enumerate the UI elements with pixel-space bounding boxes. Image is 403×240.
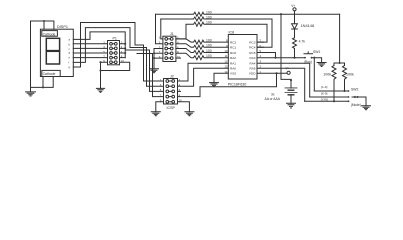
svg-text:10: 10 [179,99,183,103]
svg-text:100: 100 [206,54,212,58]
ground below J2 left [151,112,160,116]
node bottom-cathode junction [42,86,44,88]
wire segment f wrap [73,28,163,87]
svg-text:SW1: SW1 [313,50,320,54]
J2 pin circles [166,80,175,104]
svg-text:14: 14 [224,70,228,74]
ground below P1 [96,88,104,92]
wire segment g wrap [73,23,163,82]
svg-text:100: 100 [206,39,212,43]
wire RA5 to mode line [257,68,305,101]
labels segment pins [69,38,71,69]
svg-text:f: f [69,60,70,64]
node RC5 link [257,53,276,58]
wire J2 pin9 to ground [156,102,164,112]
ground below display [26,87,36,96]
power terminal V+ top [293,8,296,11]
switch SW1 [304,52,322,63]
svg-text:[Y/N]: [Y/N] [321,98,328,102]
node top-cathode junction [43,20,45,22]
svg-text:PIC16F630: PIC16F630 [228,82,247,86]
diode D1 1N4148 [292,24,298,38]
wire RA3 row [257,57,305,59]
display DISP1 body [40,29,73,76]
switch SW2 lever [352,97,366,106]
svg-text:b: b [69,43,71,47]
svg-text:1N4148: 1N4148 [301,23,315,28]
svg-text:SW2: SW2 [351,87,358,91]
svg-text:RA1: RA1 [230,62,236,66]
wire row2 left drop to J1 pin1 [161,19,163,39]
wire J1 pins 5,7,9 to ground bus [154,49,163,69]
svg-text:RC3: RC3 [249,40,255,44]
resistor R3 100 [176,22,267,42]
svg-text:3x: 3x [271,93,275,97]
ground below battery [287,103,296,108]
wire segment d [73,52,107,54]
svg-text:RC0: RC0 [230,51,236,55]
IC IC8 body (PIC16F630) [228,35,257,80]
resistor R1 100 (V+ row) [156,12,340,16]
svg-text:100: 100 [206,15,212,19]
wire top cathode net [31,21,54,87]
svg-text:RA2: RA2 [230,56,236,60]
resistor R7 100 [176,53,228,59]
wire J2 pin4 riser to RA0 [178,68,229,86]
resistor R9 100k left [332,66,336,102]
wire J2 pin8 to VDD [178,73,277,96]
ground at SW1 [317,63,326,67]
power terminal V+ at VDD [287,71,290,74]
resistor R2 100 [161,17,272,47]
node R9 bottom [333,100,335,102]
wire J2 pin6 stub [178,90,181,92]
svg-text:e: e [69,56,71,59]
svg-text:RA5: RA5 [249,67,255,71]
connector P1 body [108,41,120,65]
labels resistors 100 [206,11,212,59]
connector J2 body [164,79,178,105]
wire segment e [73,57,107,59]
svg-text:V+: V+ [286,66,290,70]
svg-text:12: 12 [224,60,228,64]
svg-text:RA0: RA0 [230,67,236,71]
seven-segment digit lower [46,51,59,64]
node VDD branch [275,72,277,74]
resistor R5 100 [176,44,228,50]
IC pin numbers left [224,39,228,74]
svg-text:Cathode: Cathode [43,72,56,76]
P1 pin circles [110,42,118,63]
svg-text:100k: 100k [346,72,354,76]
svg-text:g: g [69,66,71,69]
J1 internal stubs [168,39,171,58]
svg-text:a: a [69,38,71,41]
J1 pin circles [165,38,173,60]
J2 internal stubs [169,81,172,102]
connector J1 body [163,36,176,61]
svg-text:10: 10 [224,49,228,53]
ground below J2 right [185,112,194,116]
svg-text:ICSP: ICSP [167,106,176,110]
ground below J1 [150,69,159,73]
svg-text:RC4: RC4 [249,46,255,50]
IC pin numbers right [260,39,262,74]
svg-text:10: 10 [121,59,125,63]
svg-text:100k: 100k [323,72,331,76]
svg-text:10: 10 [177,55,181,59]
svg-text:VSS: VSS [230,72,236,76]
wire P1 pin9 to ground [101,62,108,88]
wire J2 pin10 to ground [178,102,190,112]
svg-text:Cathode: Cathode [43,32,56,36]
wire mode contact 6-9 [310,96,349,98]
svg-text:DISP1: DISP1 [57,25,68,29]
svg-text:11: 11 [225,54,228,58]
svg-text:c: c [69,48,71,51]
cathode cell bottom [42,70,60,76]
svg-text:RA3: RA3 [249,56,255,60]
battery BT1 plates [285,88,297,93]
P1 internal pin stubs [112,44,114,62]
svg-text:4.7k: 4.7k [299,40,306,44]
svg-text:13: 13 [224,65,228,69]
P1 pin numbers [103,41,124,63]
wire bottom cathode bus [31,77,54,88]
node P1 pin9 [99,61,101,63]
node P1 right pin joins [124,43,126,45]
J1 pin numbers [159,36,181,59]
svg-text:[1-4]: [1-4] [321,85,327,89]
wire J1 pin10 stub [176,57,181,59]
wire RA4 to mode line [257,63,310,97]
seven-segment digit upper [46,38,59,50]
svg-text:RA4: RA4 [249,62,255,66]
wire segment b [73,43,107,45]
svg-text:AA or AAA: AA or AAA [265,97,281,101]
wire 100k feed [334,14,345,65]
node R8 bottom [293,57,295,59]
node R10 bottom [343,90,345,92]
svg-text:VDD: VDD [249,72,256,76]
wire battery riser [281,14,291,80]
wire J2 pin7 riser [137,54,164,97]
svg-text:[6-9]: [6-9] [321,91,327,95]
IC pin names right [249,40,256,75]
wire RA3 to mode line [313,58,315,91]
svg-text:100: 100 [206,44,212,48]
ground at SW2 [362,106,371,110]
IC right stubs [257,42,264,52]
IC pin names left [230,40,236,75]
svg-text:d: d [69,51,71,55]
svg-text:RC2: RC2 [230,40,236,44]
svg-text:RC5: RC5 [249,51,255,55]
svg-text:100: 100 [206,11,212,15]
wire V+ row1 left drop to J1 pin3 [156,14,163,44]
svg-text:J1: J1 [170,32,174,36]
wire VDD to V+ terminal [257,72,287,74]
wire segment c [73,47,107,49]
svg-text:RC1: RC1 [230,46,236,50]
wire mode contact 1-4 [314,90,348,92]
wire J2 pin2 riser to RA1 [178,63,229,81]
ground at VSS [210,83,219,87]
wire mode contact Y-N [305,100,349,102]
wire VSS to ground [214,73,228,82]
svg-text:IC8: IC8 [229,30,235,34]
J2 pin numbers [160,78,182,103]
wire segment a wrap to P1 right [73,32,163,92]
node J1 gnd bus [153,52,155,54]
svg-text:P1: P1 [113,37,117,41]
node battery top [290,79,292,81]
resistor R6 100 [176,49,228,55]
resistor R4 100 [176,39,228,44]
node 100k top [339,62,341,64]
resistor R10 100k right [343,66,347,92]
svg-text:(Mode): (Mode) [351,103,361,107]
resistor R8 4.7k vertical [293,38,297,58]
svg-text:(Run): (Run) [304,60,312,64]
svg-text:J2: J2 [170,74,174,78]
cathode cell top [42,31,58,37]
node V+ line branch [280,13,282,15]
svg-text:100: 100 [206,21,212,25]
wire P1 pin10 loop [101,62,130,70]
svg-text:100: 100 [206,49,212,53]
P1 right stubs [120,44,126,58]
svg-text:V+: V+ [291,4,295,8]
node P1 ground junction [99,69,101,71]
